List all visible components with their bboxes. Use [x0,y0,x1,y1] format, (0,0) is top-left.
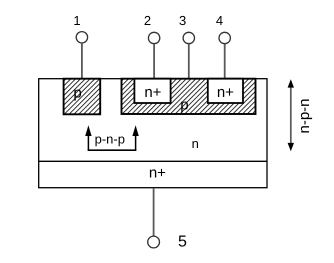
lead wire 4 [224,44,226,80]
terminal circle 4 [219,32,230,43]
p-n-p indicator bracket bottom [88,149,137,151]
svg-text:p: p [180,96,188,113]
lead wire 3 [188,44,190,80]
terminal circle 1 [76,32,87,43]
n-p-n arrowhead bottom [288,143,294,151]
svg-text:5: 5 [178,234,187,251]
central p region (hatched) [122,79,256,114]
terminal circle 3 [183,32,194,43]
p region left (hatched) [64,79,101,115]
svg-text:n+: n+ [149,165,166,182]
lead wire 5 [153,188,155,236]
svg-text:p: p [73,85,81,102]
svg-text:4: 4 [216,13,223,28]
n+ emitter left box [134,79,170,103]
lead wire 2 [153,44,155,80]
svg-text:3: 3 [179,13,186,28]
p-n-p indicator left arrow [87,134,89,150]
svg-text:p-n-p: p-n-p [95,131,125,146]
n+ emitter right box [208,79,243,103]
svg-text:2: 2 [144,13,151,28]
n-p-n double arrow shaft [290,84,292,147]
svg-text:n+: n+ [144,84,161,101]
n-p-n arrowhead top [288,79,294,87]
p-n-p indicator right arrow [135,134,137,150]
svg-text:n: n [192,136,199,151]
device body outline (n substrate) [39,79,267,188]
svg-text:n-p-n: n-p-n [296,98,313,133]
svg-text:n+: n+ [217,84,234,101]
buried n+ layer top line [39,160,267,162]
svg-text:1: 1 [73,13,80,28]
terminal circle 2 [148,32,159,43]
terminal circle 5 [148,236,160,248]
lead wire 1 [81,43,83,78]
